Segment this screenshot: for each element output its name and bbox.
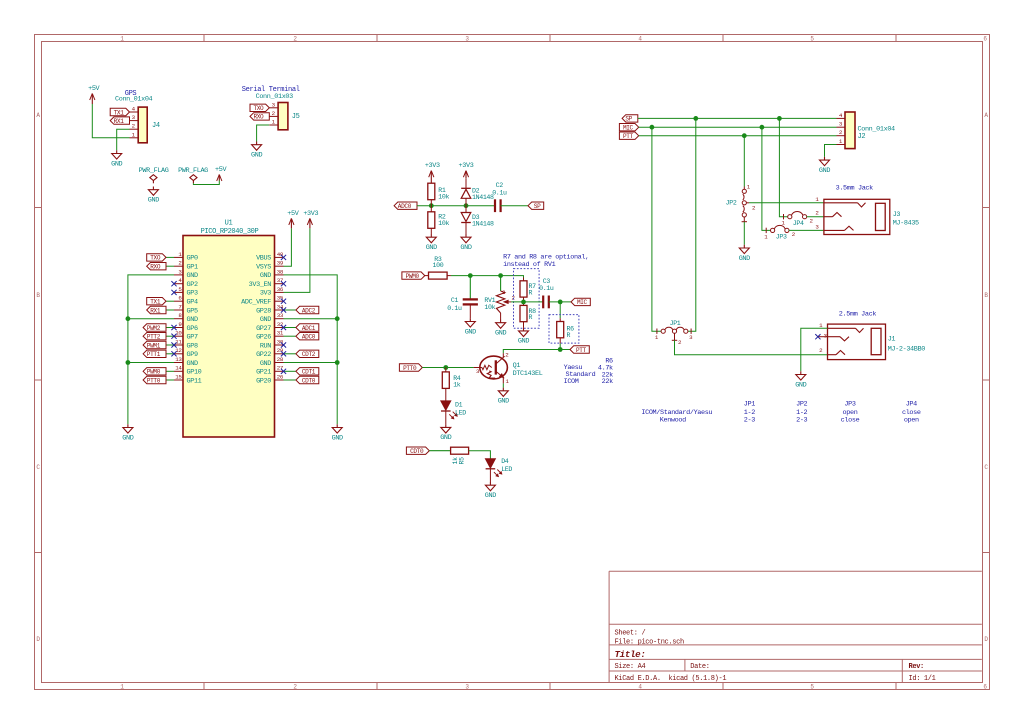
svg-text:GND: GND (332, 434, 343, 442)
no-connect (281, 299, 286, 304)
svg-text:GP4: GP4 (187, 299, 198, 307)
svg-text:RXO: RXO (253, 114, 264, 121)
global label PTT2 (U1 pin 10) (143, 333, 166, 341)
ground (R2) (426, 234, 437, 252)
wire (284, 379, 296, 381)
wire SP drop to JP1 (688, 118, 696, 331)
ground (J5) (251, 142, 262, 160)
svg-text:instead of RV1: instead of RV1 (503, 261, 555, 269)
optional divider box R7 R8 (514, 269, 540, 329)
svg-text:10k: 10k (438, 194, 449, 201)
svg-text:GND: GND (187, 360, 198, 368)
svg-text:GP3: GP3 (187, 290, 198, 298)
wire (284, 228, 310, 292)
global label PTT (radio) (619, 132, 638, 140)
global label TX1 (U1 pin 6) (147, 298, 166, 306)
global label ADC1 (U1 pin 32) (296, 324, 319, 332)
jack J1 MJ-2-34BB0 2.5mm (818, 322, 925, 360)
no-connect (171, 281, 176, 286)
global label TX1 (110, 108, 129, 116)
wire (166, 265, 174, 267)
wire PTT drop to JP2 (743, 136, 745, 187)
LED D4 (486, 458, 513, 482)
wire (422, 367, 473, 369)
resistor R7 R (520, 278, 536, 302)
diode D2 1N4148 (461, 178, 494, 206)
global label RXO (250, 113, 269, 121)
svg-text:VSYS: VSYS (256, 264, 271, 272)
svg-text:JP4: JP4 (906, 400, 917, 408)
svg-text:GND: GND (122, 434, 133, 442)
capacitor C2 0.1u (492, 182, 507, 212)
junction (468, 273, 473, 278)
global label RX1 (110, 117, 129, 125)
wire (639, 135, 837, 137)
no-connect (281, 255, 286, 260)
power flag PWR_FLAG (GND) (139, 167, 169, 183)
no-connect (171, 290, 176, 295)
svg-text:1: 1 (178, 251, 182, 258)
note 3.5mm Jack (836, 184, 874, 192)
svg-text:ADC1: ADC1 (302, 325, 316, 332)
ground (Q1) (498, 388, 509, 406)
svg-text:Conn_01x04: Conn_01x04 (115, 96, 153, 104)
junction (742, 133, 747, 138)
transistor Q1 DTC143EL (474, 352, 543, 385)
svg-text:PTT0: PTT0 (147, 377, 161, 384)
svg-text:MIC: MIC (577, 299, 588, 306)
svg-text:GND: GND (260, 316, 271, 324)
svg-text:3.5mm Jack: 3.5mm Jack (836, 184, 874, 192)
svg-text:4: 4 (178, 277, 182, 284)
resistor R6 R (557, 318, 574, 343)
potentiometer RV1 10k (484, 276, 515, 320)
svg-text:GND: GND (460, 244, 471, 252)
resistor R1 10k (428, 183, 450, 206)
note 2.5mm Jack (839, 311, 877, 319)
wire (166, 344, 174, 346)
svg-text:J3: J3 (893, 211, 901, 219)
svg-text:2: 2 (272, 110, 276, 117)
svg-text:GND: GND (819, 167, 830, 175)
svg-text:3: 3 (815, 223, 819, 230)
svg-text:RV1: RV1 (484, 297, 495, 304)
global label CDT2 (U1 pin 29) (296, 350, 319, 358)
svg-text:DTC143EL: DTC143EL (513, 370, 543, 378)
wire J1 pin1 to ground (801, 328, 828, 371)
svg-text:12: 12 (175, 347, 182, 354)
ground (C1) (465, 318, 476, 336)
connector J2 Conn_01x04 (837, 112, 896, 149)
svg-text:TX1: TX1 (150, 299, 161, 306)
power +3V3 (D2) (459, 162, 474, 178)
svg-text:+5V: +5V (215, 166, 227, 174)
wire (743, 222, 745, 245)
svg-text:LED: LED (455, 410, 466, 417)
jack J3 MJ-8435 3.5mm (815, 196, 919, 235)
svg-text:ADC0: ADC0 (302, 334, 316, 341)
svg-text:Rev:: Rev: (909, 663, 924, 671)
svg-text:1: 1 (506, 378, 510, 385)
wire (639, 126, 837, 128)
svg-text:C2: C2 (496, 182, 504, 189)
svg-text:3: 3 (839, 121, 843, 128)
svg-text:PWM2: PWM2 (147, 325, 161, 332)
jumper JP4 (782, 211, 814, 226)
no-connect (281, 281, 286, 286)
global label RX1 (U1 pin 7) (147, 306, 166, 314)
svg-text:3V3: 3V3 (260, 290, 271, 298)
svg-text:R: R (567, 332, 571, 339)
jumper JP1 (655, 320, 693, 346)
ground (J1) (795, 371, 806, 389)
svg-text:GP0: GP0 (187, 255, 198, 263)
resistor R4 1k (442, 368, 461, 402)
svg-text:PWR_FLAG: PWR_FLAG (178, 167, 208, 175)
no-connect (171, 325, 176, 330)
svg-text:10: 10 (175, 330, 182, 337)
svg-text:38: 38 (277, 268, 284, 275)
no-connect (171, 351, 176, 356)
global label PTT0 (U1 pin 15) (143, 376, 166, 384)
junction (464, 203, 469, 208)
svg-text:GP27: GP27 (256, 325, 271, 333)
svg-text:JP1: JP1 (670, 320, 681, 327)
wire PTT node (503, 350, 570, 354)
svg-text:GND: GND (251, 152, 262, 160)
wire (166, 370, 174, 372)
svg-text:Title:: Title: (615, 649, 646, 660)
wire (166, 309, 174, 311)
svg-text:Q1: Q1 (513, 362, 521, 370)
wire (166, 335, 174, 337)
svg-text:3: 3 (132, 114, 136, 121)
svg-text:GND: GND (111, 160, 122, 168)
svg-text:R: R (529, 290, 533, 297)
no-connect (281, 325, 286, 330)
svg-text:GP6: GP6 (187, 325, 198, 333)
svg-text:TXO: TXO (253, 105, 264, 112)
junction (777, 116, 782, 121)
svg-text:RXO: RXO (150, 264, 161, 271)
svg-text:Size: A4: Size: A4 (615, 663, 646, 671)
svg-text:ADC2: ADC2 (302, 307, 316, 314)
wire (789, 229, 824, 231)
svg-text:D4: D4 (501, 458, 509, 465)
ground (D4) (485, 482, 496, 500)
svg-text:4: 4 (839, 112, 843, 119)
wire (549, 301, 571, 303)
wire (451, 276, 524, 278)
svg-text:1k: 1k (453, 381, 461, 388)
svg-text:MJ-8435: MJ-8435 (893, 219, 919, 227)
power +3V3 (U1) (303, 210, 318, 228)
svg-text:GND: GND (795, 381, 806, 389)
svg-text:GP1: GP1 (187, 264, 198, 272)
svg-text:GND: GND (260, 360, 271, 368)
svg-text:3: 3 (272, 101, 276, 108)
ground (R8) (518, 328, 529, 346)
wire (502, 383, 504, 387)
svg-text:PWM0: PWM0 (406, 273, 420, 280)
svg-text:C: C (36, 464, 40, 471)
note R6 value table (564, 357, 613, 386)
svg-text:2: 2 (752, 205, 756, 212)
jumper JP3 (764, 225, 796, 240)
svg-text:+3V3: +3V3 (303, 210, 318, 218)
wire (193, 180, 219, 184)
wire (166, 256, 174, 258)
svg-text:GND: GND (465, 328, 476, 336)
svg-text:2: 2 (839, 129, 843, 136)
svg-text:PWR_FLAG: PWR_FLAG (139, 167, 169, 175)
svg-text:GND: GND (485, 492, 496, 500)
svg-text:J5: J5 (292, 113, 300, 121)
svg-text:1N4148: 1N4148 (472, 194, 494, 201)
svg-text:J1: J1 (888, 336, 896, 344)
wire (117, 129, 130, 150)
svg-text:PWM0: PWM0 (147, 369, 161, 376)
capacitor C3 0.1u (539, 278, 554, 308)
wire (257, 125, 270, 142)
svg-text:PICO_RP2040_30P: PICO_RP2040_30P (201, 228, 259, 236)
junction (126, 316, 131, 321)
svg-text:Id: 1/1: Id: 1/1 (909, 675, 936, 683)
svg-text:TX1: TX1 (114, 109, 125, 116)
svg-text:3: 3 (689, 334, 693, 341)
svg-text:GND: GND (739, 255, 750, 263)
svg-text:GP20: GP20 (256, 377, 271, 385)
svg-text:TXO: TXO (150, 255, 161, 262)
note Serial Terminal (242, 86, 300, 94)
svg-text:RX1: RX1 (114, 118, 125, 125)
svg-text:JP3: JP3 (844, 400, 855, 408)
global label TXO (250, 104, 269, 112)
svg-text:U1: U1 (225, 220, 233, 228)
svg-text:CDT0: CDT0 (302, 377, 316, 384)
svg-text:B: B (36, 292, 40, 299)
svg-text:CDT0: CDT0 (410, 448, 424, 455)
junction (335, 316, 340, 321)
global label CDT1 (U1 pin 27) (296, 368, 319, 376)
svg-text:28: 28 (277, 356, 284, 363)
junction (760, 125, 765, 130)
wire (284, 309, 296, 311)
svg-text:2: 2 (505, 352, 509, 359)
wire (559, 343, 561, 349)
wire (166, 379, 174, 381)
svg-text:LED: LED (501, 466, 512, 473)
junction (558, 347, 563, 352)
svg-text:Date:: Date: (690, 663, 709, 671)
LED D1 (441, 401, 466, 424)
svg-text:RX1: RX1 (150, 307, 161, 314)
resistor R3 100 (425, 256, 451, 279)
svg-text:D1: D1 (455, 402, 463, 409)
global label ADC0 (U1 pin 31) (296, 333, 319, 341)
global label TXO (U1 pin 1) (147, 254, 166, 262)
IC U1 PICO_RP2040_30P (174, 220, 284, 438)
svg-text:GP9: GP9 (187, 351, 198, 359)
wire (559, 302, 561, 318)
no-connect (281, 342, 286, 347)
wire MIC drop to JP3 (762, 127, 771, 230)
wire (284, 327, 296, 329)
svg-text:2-3: 2-3 (796, 416, 807, 424)
wire (128, 318, 174, 320)
svg-text:4: 4 (132, 106, 136, 113)
global label PTT0 (Q1) (399, 364, 422, 372)
optional resistor box R6 (549, 315, 579, 344)
svg-text:2: 2 (810, 218, 814, 225)
note jumper settings table (641, 400, 921, 424)
svg-text:A: A (36, 112, 40, 119)
svg-text:D: D (36, 636, 40, 643)
no-connect (171, 334, 176, 339)
wire JP1 to J1 (675, 340, 828, 354)
junction (498, 273, 503, 278)
svg-text:J4: J4 (152, 122, 160, 130)
svg-text:CDT2: CDT2 (302, 351, 316, 358)
svg-text:MJ-2-34BB0: MJ-2-34BB0 (888, 345, 926, 353)
svg-text:R5: R5 (458, 457, 465, 465)
wire SP drop to JP4 (779, 118, 787, 216)
svg-text:GP11: GP11 (187, 377, 202, 385)
wire (284, 362, 338, 364)
global label SP (radio) (622, 115, 638, 123)
svg-text:8: 8 (178, 312, 182, 319)
note R7 R8 optional (503, 253, 589, 269)
svg-text:2-3: 2-3 (744, 416, 755, 424)
svg-text:GP2: GP2 (187, 281, 198, 289)
no-connect (281, 369, 286, 374)
svg-text:Kenwood: Kenwood (660, 416, 686, 424)
global label PWM0 (audio) (402, 272, 425, 280)
wire (807, 216, 824, 218)
junction (335, 360, 340, 365)
resistor R8 R (520, 302, 536, 328)
junction (126, 360, 131, 365)
diode D3 1N4148 (461, 206, 494, 234)
power +3V3 (R1) (425, 162, 440, 183)
svg-text:1: 1 (132, 131, 136, 138)
svg-text:close: close (841, 416, 860, 424)
ground (JP2) (739, 245, 750, 263)
svg-text:+3V3: +3V3 (425, 162, 440, 170)
wire (825, 145, 837, 157)
svg-text:PTT2: PTT2 (147, 334, 161, 341)
svg-text:1: 1 (747, 184, 751, 191)
svg-text:J2: J2 (858, 133, 866, 141)
svg-text:RUN: RUN (260, 342, 271, 350)
svg-text:26: 26 (277, 373, 284, 380)
connector J4 Conn_01x04 (115, 96, 160, 143)
svg-text:open: open (904, 416, 919, 424)
global label PWM2 (U1 pin 9) (143, 324, 166, 332)
wire (417, 205, 495, 207)
junction (429, 203, 434, 208)
wire (166, 300, 174, 302)
svg-text:36: 36 (277, 286, 284, 293)
ground (J2) (819, 157, 830, 175)
power +5V (U1) (287, 210, 299, 228)
wire (92, 104, 129, 138)
no-connect (281, 351, 286, 356)
svg-text:22k: 22k (602, 378, 613, 386)
global label MIC (radio) (619, 124, 638, 132)
global label RXO (U1 pin 2) (147, 263, 166, 271)
svg-text:1N4148: 1N4148 (472, 221, 494, 228)
wire (166, 327, 174, 329)
svg-text:7: 7 (178, 303, 182, 310)
svg-text:GND: GND (187, 272, 198, 280)
svg-text:1: 1 (655, 334, 659, 341)
junction (693, 116, 698, 121)
power +5V (GPS) (88, 85, 100, 104)
svg-text:2: 2 (815, 210, 819, 217)
svg-text:9: 9 (178, 321, 182, 328)
svg-text:33: 33 (277, 312, 284, 319)
wire GND left bus (128, 275, 174, 424)
svg-text:GND: GND (426, 244, 437, 252)
svg-text:C: C (984, 464, 988, 471)
svg-text:0.1u: 0.1u (447, 305, 462, 312)
svg-text:GP10: GP10 (187, 369, 202, 377)
global label CDT0 (U1 pin 26) (296, 376, 319, 384)
svg-text:File: pico-tnc.sch: File: pico-tnc.sch (615, 639, 684, 647)
junction (558, 300, 563, 305)
wire (284, 335, 296, 337)
svg-text:1: 1 (272, 119, 276, 126)
svg-text:Conn_01x03: Conn_01x03 (256, 93, 294, 101)
svg-text:3: 3 (178, 268, 182, 275)
wire (166, 353, 174, 355)
power +5V (flag) (215, 166, 227, 181)
svg-text:31: 31 (277, 330, 284, 337)
wire (284, 318, 338, 320)
no-connect (281, 307, 286, 312)
global label PWM1 (U1 pin 11) (143, 341, 166, 349)
svg-text:PWM1: PWM1 (147, 342, 161, 349)
wire (284, 353, 296, 355)
global label ADC0 (divider) (394, 202, 417, 210)
svg-text:PTT: PTT (623, 133, 634, 140)
svg-text:2.5mm Jack: 2.5mm Jack (839, 311, 877, 319)
svg-text:3V3_EN: 3V3_EN (249, 281, 272, 289)
svg-text:ADC0: ADC0 (398, 203, 412, 210)
ground (GPS) (111, 150, 122, 168)
ground (U1 left) (122, 424, 133, 442)
svg-text:JP2: JP2 (726, 200, 737, 207)
svg-text:6: 6 (983, 36, 987, 43)
wire (501, 205, 528, 207)
svg-text:2: 2 (132, 123, 136, 130)
resistor R5 1k (429, 447, 468, 464)
wire (284, 370, 296, 372)
ground (U1 right) (332, 424, 343, 442)
svg-text:R: R (529, 314, 533, 321)
svg-text:GP5: GP5 (187, 307, 198, 315)
svg-text:JP3: JP3 (776, 234, 787, 241)
svg-text:C3: C3 (543, 278, 551, 285)
global label SP (divider) (528, 202, 544, 210)
no-connect (815, 334, 820, 339)
jumper JP2 (726, 184, 756, 222)
svg-text:39: 39 (277, 260, 284, 267)
global label CDT0 (LED) (406, 447, 429, 455)
svg-text:11: 11 (175, 338, 182, 345)
svg-text:10k: 10k (484, 304, 495, 311)
